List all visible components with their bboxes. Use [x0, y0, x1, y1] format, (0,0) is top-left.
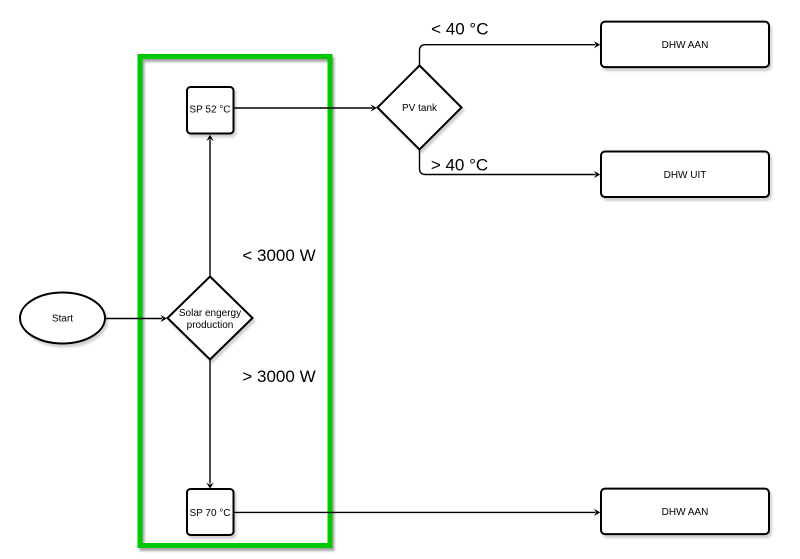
process DHW UIT [601, 152, 769, 198]
wire: Start to Solar diamond [105, 318, 162, 320]
process SP 70 C [187, 489, 234, 535]
svg-text:PV tank: PV tank [402, 103, 438, 114]
green boundary rectangle [140, 57, 330, 546]
process DHW AAN bottom [601, 489, 769, 534]
process SP 52 C [187, 87, 234, 134]
wire: Solar diamond down to SP 70 [209, 360, 211, 484]
svg-text:> 40 °C: > 40 °C [431, 156, 488, 175]
svg-text:< 40 °C: < 40 °C [431, 20, 488, 39]
svg-text:DHW AAN: DHW AAN [662, 507, 709, 518]
wire: SP 52 to PV tank [234, 107, 373, 109]
svg-text:DHW UIT: DHW UIT [664, 170, 707, 181]
svg-text:Start: Start [52, 314, 73, 325]
terminator Start [20, 293, 105, 344]
svg-text:DHW AAN: DHW AAN [662, 40, 709, 51]
svg-text:< 3000 W: < 3000 W [242, 246, 315, 265]
decision Solar energy production [168, 277, 253, 360]
wire: SP 70 to DHW AAN bottom [234, 511, 596, 513]
svg-text:Solar engergy: Solar engergy [179, 308, 241, 319]
svg-text:production: production [187, 320, 234, 331]
wire: PV tank top to DHW AAN [420, 45, 596, 66]
wire: Solar diamond up to SP 52 [209, 140, 211, 277]
svg-text:SP 70 °C: SP 70 °C [189, 508, 230, 519]
wire: PV tank bottom to DHW UIT [420, 150, 596, 175]
svg-text:> 3000 W: > 3000 W [242, 367, 315, 386]
process DHW AAN top [601, 22, 769, 68]
svg-text:SP 52 °C: SP 52 °C [189, 105, 230, 116]
decision PV tank [378, 66, 462, 150]
